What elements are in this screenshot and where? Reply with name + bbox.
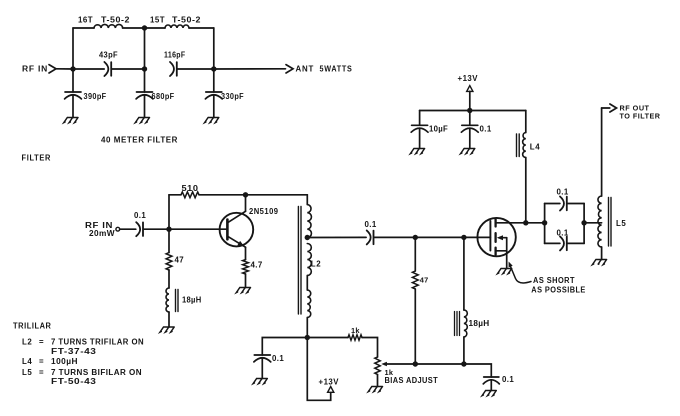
- node gate-R node: [413, 235, 418, 240]
- node A filter input: [70, 66, 75, 71]
- inductor 18uH gate choke: [464, 310, 467, 337]
- supply +13V arrow top: [467, 86, 473, 92]
- ground L5: [593, 260, 607, 265]
- wire rail to L4: [525, 111, 527, 133]
- wire bypass to ground: [261, 358, 263, 379]
- wire 10uF ground: [419, 128, 421, 148]
- wire 13V to rail: [469, 91, 471, 110]
- wire bottom rail left: [262, 338, 307, 356]
- svg-text:+13V: +13V: [458, 74, 479, 83]
- node B filter middle: [142, 66, 147, 71]
- wire bracket top branch right: [567, 203, 584, 205]
- wire node3 to ANT arrow: [214, 68, 286, 70]
- wire choke to ground: [168, 312, 170, 327]
- inductor L2 lower winding: [307, 290, 310, 318]
- svg-text:4.7: 4.7: [251, 261, 263, 270]
- node cap bracket left: [542, 220, 547, 225]
- transistor Q2 source stroke: [496, 238, 507, 269]
- wire 47 gate bottom: [414, 289, 416, 364]
- svg-text:T-50-2: T-50-2: [101, 16, 130, 25]
- node collector node: [243, 192, 248, 197]
- wire choke 2 top: [463, 237, 465, 310]
- wire rail left drop: [419, 111, 421, 126]
- svg-text:47: 47: [420, 275, 429, 284]
- wire RF OUT vertical: [601, 108, 603, 196]
- svg-text:ANT: ANT: [296, 65, 315, 74]
- transistor Q2 substrate stroke: [499, 237, 507, 239]
- svg-text:100µH: 100µH: [51, 357, 78, 366]
- wire base node up: [168, 195, 170, 229]
- inductor 18uH input choke: [166, 288, 169, 312]
- wire 680pF drop: [144, 69, 146, 92]
- arrowhead RF IN: [49, 65, 56, 73]
- transistor Q1 base bar: [226, 220, 229, 240]
- svg-text:47: 47: [175, 256, 185, 265]
- wire bracket right vertical: [583, 204, 585, 244]
- svg-text:+13V: +13V: [319, 378, 340, 387]
- svg-text:=: =: [39, 338, 44, 347]
- ground filter 1: [64, 118, 78, 123]
- supply +13V arrow bottom: [328, 387, 334, 393]
- wire 0.1 right ground: [490, 380, 492, 391]
- ground bypass left: [253, 379, 267, 384]
- svg-text:390pF: 390pF: [84, 92, 107, 101]
- resistor 1k series: [348, 335, 362, 340]
- arrowhead ANT: [286, 65, 293, 73]
- wire 0.1 13V ground: [469, 128, 471, 148]
- svg-text:10µF: 10µF: [429, 125, 448, 134]
- svg-text:T-50-2: T-50-2: [172, 16, 201, 25]
- svg-text:0.1: 0.1: [365, 220, 377, 229]
- wire to 510: [169, 194, 181, 196]
- core lines L4: [516, 134, 518, 157]
- svg-text:680pF: 680pF: [152, 92, 175, 101]
- wire top right lead: [189, 27, 214, 29]
- svg-text:0.1: 0.1: [502, 375, 514, 384]
- inductor L4: [523, 133, 526, 158]
- wire node to 1k: [307, 337, 348, 339]
- wire RF IN to node: [56, 68, 73, 70]
- svg-text:L5: L5: [22, 368, 32, 377]
- wire drain to cap bracket: [526, 222, 545, 224]
- wire top into L2: [306, 195, 308, 205]
- wire top middle: [123, 27, 165, 29]
- ground MOSFET source: [498, 269, 512, 274]
- capacitor C input 0.1: [136, 222, 140, 236]
- transistor Q2 MOSFET body: [477, 218, 515, 256]
- svg-text:AS SHORT: AS SHORT: [533, 276, 575, 285]
- wire 47 gate top: [414, 237, 416, 271]
- svg-text:0.1: 0.1: [272, 354, 284, 363]
- svg-text:0.1: 0.1: [557, 188, 569, 197]
- inductor L2 upper winding: [307, 205, 311, 238]
- node 13V rail: [467, 108, 472, 113]
- svg-text:5WATTS: 5WATTS: [320, 65, 353, 74]
- wire right vertical: [213, 28, 215, 69]
- wire choke 2 bottom: [463, 337, 465, 364]
- svg-text:RF IN: RF IN: [22, 65, 48, 74]
- wire collector node to L2: [246, 194, 308, 196]
- resistor 47 base: [166, 253, 172, 271]
- core lines L5: [608, 198, 610, 247]
- wire top-left lead: [73, 27, 94, 29]
- node top middle junction: [142, 25, 147, 30]
- wire bracket top branch left: [545, 203, 560, 205]
- svg-text:43pF: 43pF: [99, 51, 118, 60]
- wire 0.1 to 47 node: [374, 236, 416, 238]
- capacitor 330pF: [206, 91, 222, 93]
- svg-text:40 METER FILTER: 40 METER FILTER: [101, 136, 178, 145]
- wire emitter down: [245, 247, 247, 259]
- svg-text:20mW: 20mW: [89, 229, 115, 238]
- wire bracket bottom branch left: [545, 242, 560, 244]
- transistor Q2 channel segments: [494, 219, 496, 226]
- wire L4 to drain: [525, 158, 527, 223]
- svg-text:FT-50-43: FT-50-43: [51, 377, 97, 386]
- capacitor 0.1 13V: [462, 124, 478, 126]
- wire L2 tap to 0.1: [307, 236, 366, 238]
- transistor Q1 2N5109 body: [220, 213, 254, 247]
- transistor Q2 gate bar: [489, 221, 491, 251]
- svg-text:TRILILAR: TRILILAR: [13, 322, 52, 331]
- inductor L5 winding: [598, 196, 602, 247]
- svg-text:7 TURNS TRIFILAR ON: 7 TURNS TRIFILAR ON: [51, 338, 144, 347]
- capacitor 390pF: [65, 91, 81, 93]
- wire 330pF drop: [213, 69, 215, 92]
- inductor L2 middle winding: [307, 244, 311, 276]
- wire 510 to collector node: [199, 194, 246, 196]
- capacitor 0.1 parallel top: [560, 197, 564, 211]
- svg-text:L2: L2: [311, 260, 321, 269]
- node gate-choke node: [461, 235, 466, 240]
- wire pot to ground: [377, 375, 379, 387]
- wire L2 inter-winding: [306, 276, 308, 291]
- wire middle vertical: [144, 28, 146, 69]
- ground 0.1 13V: [461, 149, 475, 154]
- wire to choke node: [415, 236, 464, 238]
- svg-text:18µH: 18µH: [182, 296, 202, 305]
- node C filter output: [211, 66, 216, 71]
- wire 680pF to ground: [144, 95, 146, 118]
- transistor Q2 substrate arrowhead: [497, 235, 503, 240]
- core lines L2: [297, 207, 299, 315]
- wire 43pF to node2: [112, 68, 145, 70]
- ground pot: [368, 387, 382, 392]
- arrowhead pot wiper: [381, 362, 387, 367]
- svg-text:AS POSSIBLE: AS POSSIBLE: [531, 286, 586, 295]
- ground emitter: [236, 288, 250, 293]
- capacitor 43pF: [104, 62, 108, 76]
- wire 1k to pot: [362, 338, 378, 358]
- wire 390pF drop: [72, 69, 74, 92]
- capacitor 10uF: [412, 124, 428, 126]
- svg-text:FT-37-43: FT-37-43: [51, 347, 97, 356]
- wire 330pF to ground: [213, 95, 215, 118]
- svg-text:TO FILTER: TO FILTER: [620, 112, 661, 121]
- svg-text:2N5109: 2N5109: [249, 207, 279, 216]
- wire to gate: [464, 236, 491, 238]
- wire top rail: [420, 110, 526, 112]
- potentiometer 1k body: [375, 357, 380, 375]
- wire pot wiper rail: [386, 363, 415, 365]
- core lines gate choke: [454, 312, 456, 336]
- wire 47 to choke: [168, 270, 170, 288]
- svg-text:15T: 15T: [150, 16, 165, 25]
- svg-text:L5: L5: [616, 219, 626, 228]
- resistor 4.7: [243, 260, 249, 274]
- capacitor 0.1 parallel bottom: [560, 236, 564, 250]
- svg-text:L4: L4: [530, 143, 540, 152]
- node L2 tap: [305, 235, 310, 240]
- wire 4.7 to ground: [245, 274, 247, 288]
- resistor 510: [181, 192, 199, 198]
- wire L5 to ground: [601, 247, 603, 260]
- capacitor 680pF: [137, 91, 153, 93]
- arrowhead RF OUT: [602, 107, 610, 109]
- wire collector up: [245, 195, 247, 212]
- capacitor 0.1 bypass left: [254, 354, 270, 356]
- svg-text:116pF: 116pF: [164, 51, 186, 60]
- capacitor 0.1 gate: [367, 230, 371, 244]
- wire rail to 0.1 right: [464, 364, 491, 377]
- ground filter 3: [205, 118, 219, 123]
- wire L2 bottom: [306, 318, 308, 338]
- transistor Q1 emitter arrowhead: [237, 241, 244, 247]
- wire bracket bottom branch right: [567, 242, 584, 244]
- capacitor 116pF: [170, 62, 174, 76]
- svg-text:=: =: [39, 357, 44, 366]
- ground 10uF: [411, 149, 425, 154]
- svg-text:BIAS ADJUST: BIAS ADJUST: [385, 376, 439, 385]
- wire bracket left vertical: [544, 204, 546, 244]
- core lines input choke: [175, 290, 177, 312]
- capacitor 0.1 bypass right: [484, 376, 499, 378]
- wire cap to base node: [143, 228, 169, 230]
- transistor Q2 drain stroke: [496, 222, 526, 224]
- svg-text:510: 510: [182, 184, 199, 193]
- wire left vertical: [72, 28, 74, 69]
- node drain node: [523, 220, 528, 225]
- transistor Q1 emitter stroke: [227, 236, 245, 247]
- ground filter 2: [135, 118, 149, 123]
- node base node: [166, 227, 171, 232]
- resistor 47 gate: [412, 271, 418, 289]
- node bottom rail right: [461, 361, 466, 366]
- wire bottom rail mid: [415, 363, 464, 365]
- svg-text:330pF: 330pF: [221, 92, 244, 101]
- wire base node to transistor: [169, 228, 227, 230]
- terminal RF IN circle: [116, 227, 120, 231]
- node bottom rail left: [413, 361, 418, 366]
- svg-text:L4: L4: [22, 357, 32, 366]
- wire bracket to L5 tap: [584, 222, 602, 224]
- wire 13V feed: [307, 338, 330, 401]
- leader arrow AS SHORT: [510, 266, 531, 283]
- inductor 15T T-50-2: [165, 25, 189, 28]
- node cap bracket right: [581, 220, 586, 225]
- wire 390pF to ground: [72, 95, 74, 118]
- wire 0.1 13V drop: [469, 111, 471, 126]
- wire input to cap: [120, 228, 136, 230]
- ground input choke: [160, 327, 174, 332]
- svg-text:FILTER: FILTER: [22, 154, 52, 163]
- svg-text:1k: 1k: [351, 326, 360, 335]
- svg-text:=: =: [39, 368, 44, 377]
- svg-text:16T: 16T: [78, 16, 93, 25]
- transistor Q1 collector stroke: [227, 211, 245, 223]
- node L2 bottom junction: [305, 335, 310, 340]
- svg-text:0.1: 0.1: [480, 125, 492, 134]
- ground bypass right: [482, 391, 496, 396]
- svg-text:18µH: 18µH: [469, 319, 490, 328]
- wire base node down: [168, 229, 170, 252]
- wire 116pF to node3: [177, 68, 214, 70]
- svg-text:7 TURNS BIFILAR ON: 7 TURNS BIFILAR ON: [51, 368, 142, 377]
- svg-text:L2: L2: [22, 338, 32, 347]
- inductor 16T T-50-2: [94, 24, 123, 28]
- svg-text:0.1: 0.1: [134, 211, 146, 220]
